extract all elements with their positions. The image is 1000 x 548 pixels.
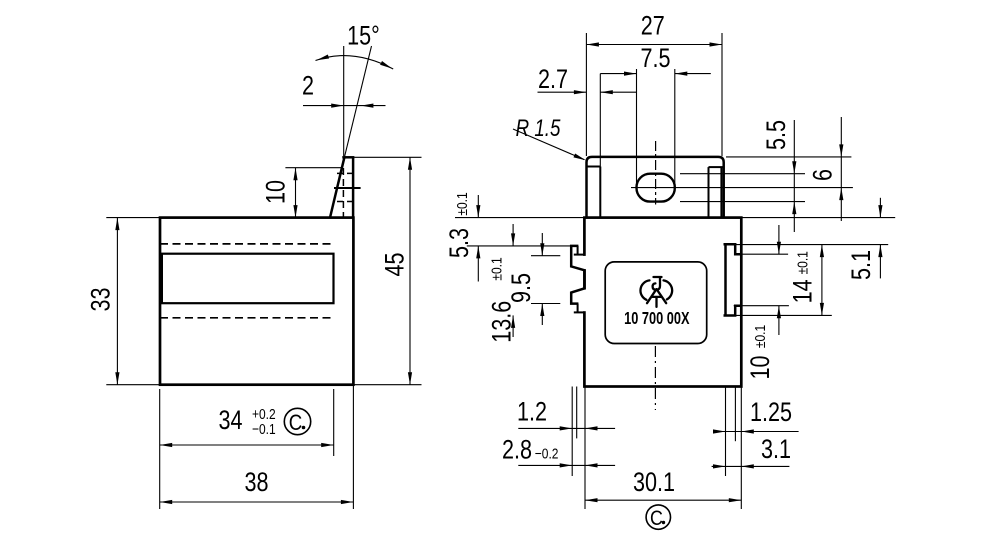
svg-text:3.1: 3.1 bbox=[761, 435, 791, 465]
svg-text:9.5: 9.5 bbox=[507, 273, 537, 303]
svg-text:45: 45 bbox=[380, 252, 410, 276]
svg-text:38: 38 bbox=[244, 468, 268, 498]
svg-text:−0.2: −0.2 bbox=[535, 445, 559, 462]
svg-text:14: 14 bbox=[788, 279, 818, 303]
svg-text:C: C bbox=[650, 507, 663, 531]
svg-text:13.6: 13.6 bbox=[487, 301, 517, 343]
svg-text:±0.1: ±0.1 bbox=[794, 251, 811, 274]
svg-text:27: 27 bbox=[641, 11, 665, 41]
svg-text:15°: 15° bbox=[347, 21, 380, 51]
svg-text:2.7: 2.7 bbox=[538, 65, 568, 95]
svg-text:1.2: 1.2 bbox=[517, 397, 547, 427]
svg-text:5.1: 5.1 bbox=[847, 250, 877, 280]
svg-text:1.25: 1.25 bbox=[750, 398, 792, 428]
svg-text:5.5: 5.5 bbox=[762, 120, 792, 150]
svg-text:±0.1: ±0.1 bbox=[488, 257, 505, 280]
svg-text:R 1.5: R 1.5 bbox=[516, 115, 562, 142]
svg-text:2.8: 2.8 bbox=[502, 435, 532, 465]
svg-text:7.5: 7.5 bbox=[640, 44, 670, 74]
svg-text:±0.1: ±0.1 bbox=[752, 325, 769, 348]
svg-text:33: 33 bbox=[86, 287, 116, 311]
svg-text:6: 6 bbox=[808, 169, 838, 181]
svg-text:10: 10 bbox=[261, 180, 291, 204]
svg-text:10 700 00X: 10 700 00X bbox=[624, 309, 690, 328]
svg-text:±0.1: ±0.1 bbox=[454, 192, 471, 215]
svg-text:10: 10 bbox=[746, 355, 776, 379]
svg-text:34: 34 bbox=[218, 406, 242, 436]
svg-text:2: 2 bbox=[302, 71, 314, 101]
svg-text:C: C bbox=[289, 412, 303, 436]
svg-text:5.3: 5.3 bbox=[445, 228, 475, 258]
svg-text:30.1: 30.1 bbox=[633, 468, 675, 498]
svg-text:−0.1: −0.1 bbox=[252, 421, 276, 438]
